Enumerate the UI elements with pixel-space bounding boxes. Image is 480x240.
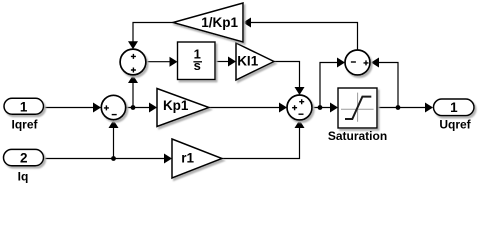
sum junction S2 (top-left, integrator input) xyxy=(120,49,146,75)
wire node C up to anti-windup sum left input xyxy=(320,63,340,108)
plus sign S2 top input xyxy=(131,54,136,59)
gain Kp1 xyxy=(157,89,209,127)
svg-text:Uqref: Uqref xyxy=(439,118,471,132)
wire anti-windup sum output to 1/Kp1 gain xyxy=(248,23,358,51)
junction dot node A on Kp1 input wire xyxy=(131,105,136,110)
svg-text:1: 1 xyxy=(20,99,28,114)
outport 1 Uqref xyxy=(434,99,475,116)
wire node B up to left sum xyxy=(113,125,115,159)
wire node A up to top-left sum xyxy=(132,80,134,108)
wire node D up to anti-windup sum right input xyxy=(375,63,398,108)
svg-text:1: 1 xyxy=(450,100,458,115)
saturation curve xyxy=(345,97,371,119)
saturation block xyxy=(338,88,377,128)
svg-text:r1: r1 xyxy=(181,150,194,165)
svg-text:Iqref: Iqref xyxy=(11,118,38,132)
sum junction S4 (anti-windup, sat_out minus sat_in) xyxy=(345,50,370,75)
integrator block 1/s xyxy=(178,42,216,80)
wire 1/Kp1 output down to top-left sum xyxy=(133,23,173,45)
minus sign S3 bottom input xyxy=(299,113,304,115)
svg-text:1/Kp1: 1/Kp1 xyxy=(201,15,238,30)
minus sign S4 left input xyxy=(351,61,356,63)
plus sign S4 right input xyxy=(364,60,369,65)
svg-text:2: 2 xyxy=(20,151,28,166)
svg-text:s: s xyxy=(194,58,201,73)
minus sign S1 bottom input xyxy=(112,114,117,116)
wire left sum to Kp1 gain xyxy=(126,107,152,109)
wire r1 output to middle sum bottom xyxy=(222,125,300,159)
junction dot node B on Iq wire xyxy=(111,156,116,161)
plus sign S3 top input xyxy=(299,99,304,104)
gain KI1 xyxy=(236,43,274,80)
wire integrator to KI1 gain xyxy=(215,61,231,63)
gain 1/Kp1 (left pointing) xyxy=(173,3,243,42)
svg-text:Iq: Iq xyxy=(18,170,29,184)
sum junction S3 (middle, before saturation) xyxy=(287,95,312,120)
wire KI1 output to middle sum top xyxy=(274,62,300,91)
wire Iq to r1 gain xyxy=(44,158,167,160)
junction dot node C pre-saturation xyxy=(318,105,323,110)
junction dot node D post-saturation xyxy=(396,105,401,110)
wire saturation output to Uqref xyxy=(377,107,428,109)
gain r1 xyxy=(172,139,222,178)
inport 1 Iqref xyxy=(4,98,44,114)
svg-text:KI1: KI1 xyxy=(237,53,259,68)
svg-text:Kp1: Kp1 xyxy=(163,98,189,113)
wire Kp1 output to middle sum xyxy=(209,107,282,109)
sum junction S1 (left, Iqref minus Iq) xyxy=(101,95,125,119)
inport 2 Iq xyxy=(4,149,44,165)
wire top-left sum to integrator xyxy=(146,61,173,63)
saturation axes xyxy=(341,93,374,122)
wire middle sum to saturation xyxy=(312,107,333,109)
wire Iqref to left sum xyxy=(44,107,97,109)
plus sign S3 left input xyxy=(292,105,297,110)
plus sign S1 left input xyxy=(104,105,109,110)
plus sign S2 bottom input xyxy=(131,68,136,73)
svg-text:Saturation: Saturation xyxy=(328,129,387,143)
